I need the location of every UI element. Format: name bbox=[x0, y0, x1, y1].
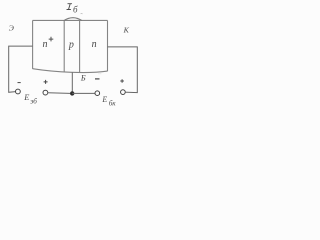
transistor body bottom edge (sagging scan) bbox=[33, 69, 108, 73]
E_эб positive terminal circle bbox=[43, 90, 48, 95]
svg-text:p: p bbox=[68, 40, 74, 51]
E_бк negative terminal circle bbox=[95, 91, 100, 96]
label I_б bbox=[67, 4, 72, 10]
svg-text:эб: эб bbox=[30, 97, 37, 105]
transistor body left edge bbox=[32, 20, 34, 69]
emitter-base divider bbox=[63, 20, 65, 72]
svg-text:бк: бк bbox=[109, 100, 117, 108]
svg-text:Э: Э bbox=[9, 24, 14, 33]
collector wire bbox=[108, 47, 138, 93]
svg-text:К: К bbox=[123, 26, 130, 35]
faint scan speck near arc label bbox=[81, 12, 83, 15]
svg-text:n: n bbox=[43, 39, 48, 50]
plus sign E_бк bbox=[120, 79, 124, 83]
svg-text:n: n bbox=[92, 39, 97, 50]
base lead bbox=[71, 72, 73, 93]
minus sign E_эб bbox=[18, 82, 21, 84]
plus sign E_эб bbox=[44, 80, 48, 84]
E_бк positive terminal circle bbox=[121, 90, 126, 95]
faint scan speck below collector region bbox=[99, 73, 102, 75]
wire junction to E_бк bbox=[72, 92, 95, 94]
junction dot (node) bbox=[70, 91, 74, 95]
emitter wire bbox=[9, 46, 33, 92]
collector-base divider bbox=[79, 20, 81, 72]
svg-text:Б: Б bbox=[80, 74, 86, 83]
svg-text:E: E bbox=[102, 94, 108, 104]
base contact arc bump bbox=[64, 18, 82, 21]
E_эб negative terminal circle bbox=[16, 89, 21, 94]
wire E_эб to base junction bbox=[48, 92, 70, 95]
transistor body right edge bbox=[107, 20, 109, 71]
svg-text:б: б bbox=[73, 5, 78, 15]
minus sign E_бк bbox=[95, 78, 100, 80]
transistor body top edge bbox=[33, 19, 108, 21]
svg-text:E: E bbox=[23, 92, 30, 102]
